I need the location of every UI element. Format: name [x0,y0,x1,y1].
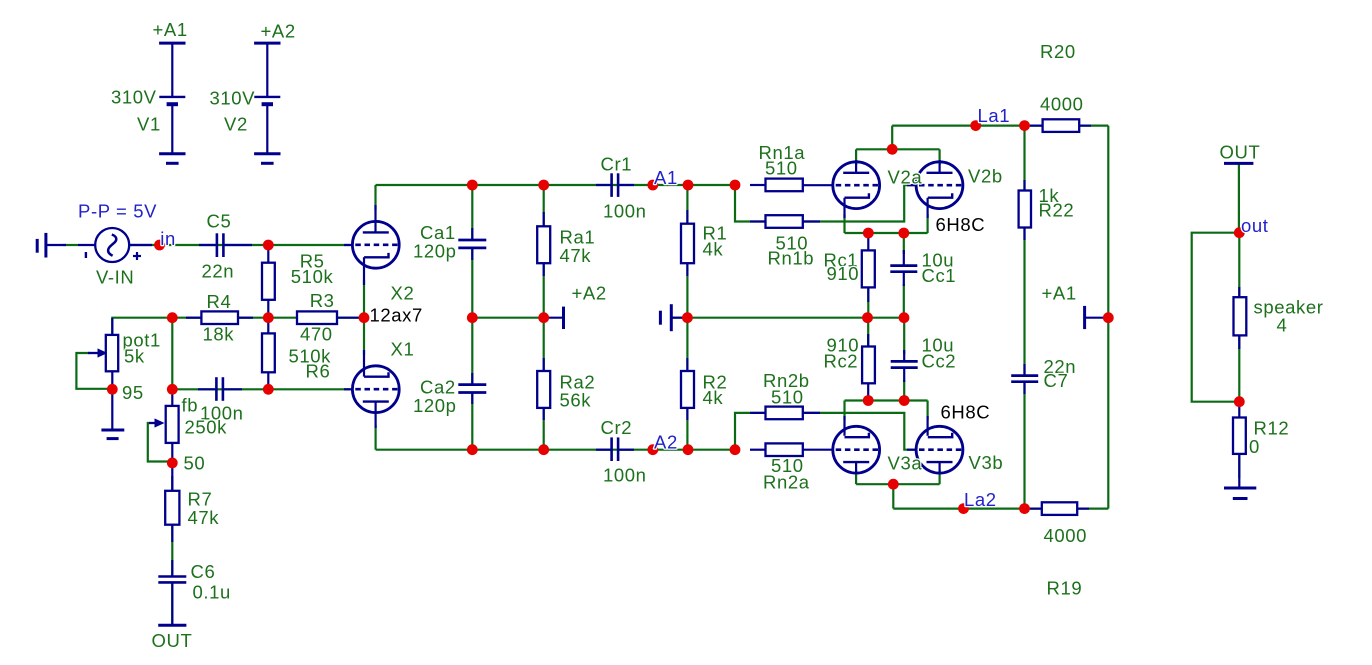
svg-text:La2: La2 [964,489,997,510]
svg-text:V-IN: V-IN [96,267,134,288]
svg-text:Cc1: Cc1 [922,265,957,286]
svg-text:56k: 56k [560,390,592,411]
svg-text:250k: 250k [185,417,228,438]
svg-text:4000: 4000 [1044,525,1088,546]
svg-text:Rn1b: Rn1b [768,248,815,269]
svg-text:in: in [160,228,176,249]
svg-text:R19: R19 [1047,578,1083,599]
svg-text:120p: 120p [413,241,457,262]
svg-text:0.1u: 0.1u [193,582,231,603]
svg-text:+A1: +A1 [153,19,188,40]
svg-text:Cr1: Cr1 [601,154,633,175]
svg-text:A1: A1 [654,167,678,188]
svg-text:+A2: +A2 [261,21,296,42]
svg-text:95: 95 [122,382,144,403]
svg-text:6H8C: 6H8C [941,402,991,423]
svg-text:+A1: +A1 [1042,283,1077,304]
svg-text:Rn2a: Rn2a [763,472,810,493]
svg-text:C6: C6 [191,561,216,582]
svg-text:5k: 5k [124,346,145,367]
svg-text:50: 50 [184,453,206,474]
svg-text:R3: R3 [310,290,335,311]
svg-text:910: 910 [827,263,860,284]
svg-text:V1: V1 [137,114,161,135]
svg-text:X1: X1 [391,339,415,360]
svg-text:100n: 100n [603,465,647,486]
svg-text:C5: C5 [207,211,232,232]
svg-text:47k: 47k [188,507,220,528]
svg-text:R4: R4 [207,291,232,312]
svg-text:0: 0 [1249,436,1260,457]
svg-text:22n: 22n [202,261,235,282]
svg-text:out: out [1241,215,1269,236]
svg-text:speaker: speaker [1254,297,1324,318]
svg-text:100n: 100n [603,201,647,222]
svg-text:310V: 310V [210,88,256,109]
svg-text:X2: X2 [391,283,415,304]
svg-text:A2: A2 [654,432,678,453]
svg-text:510: 510 [771,387,804,408]
svg-text:470: 470 [300,324,333,345]
svg-text:V2a: V2a [888,167,923,188]
svg-text:Cr2: Cr2 [601,417,633,438]
svg-text:fb: fb [182,395,199,416]
svg-text:310V: 310V [111,87,157,108]
svg-text:V3b: V3b [969,452,1004,473]
svg-text:R20: R20 [1040,41,1076,62]
svg-text:4k: 4k [703,387,724,408]
svg-text:120p: 120p [413,395,457,416]
svg-text:+A2: +A2 [572,283,607,304]
svg-text:Cc2: Cc2 [922,351,957,372]
svg-text:La1: La1 [978,105,1011,126]
svg-text:R22: R22 [1039,200,1075,221]
svg-text:4000: 4000 [1040,94,1084,115]
svg-text:OUT: OUT [152,630,193,651]
svg-text:510k: 510k [291,266,334,287]
svg-text:4: 4 [1277,315,1288,336]
svg-text:510: 510 [765,158,798,179]
svg-text:12ax7: 12ax7 [370,305,423,326]
svg-text:V3a: V3a [888,453,923,474]
svg-text:47k: 47k [560,245,592,266]
svg-text:OUT: OUT [1220,142,1261,163]
svg-text:18k: 18k [203,324,235,345]
svg-text:6H8C: 6H8C [936,214,986,235]
svg-text:Rc2: Rc2 [824,351,859,372]
svg-text:R6: R6 [306,361,331,382]
svg-text:V2: V2 [224,114,248,135]
svg-text:C7: C7 [1044,370,1069,391]
svg-text:V2b: V2b [968,166,1003,187]
svg-text:4k: 4k [703,239,724,260]
svg-text:P-P = 5V: P-P = 5V [78,201,157,222]
